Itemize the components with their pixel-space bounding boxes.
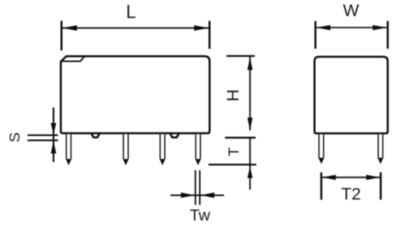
S extension line top [28,134,59,136]
W right arrow [373,25,387,30]
svg-text:T2: T2 [341,185,361,204]
T2 left arrow [322,175,336,180]
T2 dimension right tick [380,172,382,199]
L dimension right arrow [194,25,209,31]
standoff bump 2 [170,134,179,138]
H dimension line [249,57,251,131]
T dimension line [249,138,251,190]
pin 2 [123,134,128,164]
pin 3 [160,134,165,164]
svg-text:Tw: Tw [190,208,211,225]
case corner step detail [62,57,85,62]
svg-text:H: H [223,89,242,101]
svg-text:L: L [126,2,136,22]
S dimension line [53,108,55,163]
L dimension line [63,27,209,29]
Tw extension line left [194,170,196,205]
relay case end view body [315,57,388,134]
T2 right arrow [366,175,380,180]
pin tip plane tick [209,164,257,166]
L dimension left tick [61,21,63,51]
H dimension top tick [227,55,255,57]
L dimension right tick [209,21,211,49]
pin 1 [66,134,71,164]
W dimension left tick [314,21,316,49]
S upper arrow [51,123,56,135]
Tw left arrow [181,193,195,198]
S extension line bottom [28,139,59,141]
S lower arrow [51,141,56,154]
svg-text:S: S [6,132,23,142]
H bottom arrow [247,118,252,131]
W left arrow [316,25,330,30]
seating plane tick [225,137,256,139]
T2 dimension line [322,176,379,178]
W dimension line [316,27,386,29]
relay case side view body [61,56,210,133]
svg-text:T: T [225,147,242,156]
L dimension left arrow [63,25,78,31]
pin 4 [196,134,201,164]
Tw dimension line [170,194,224,196]
Tw right arrow [200,193,214,198]
T bottom arrow [247,167,252,178]
T2 dimension left tick [320,172,322,199]
H top arrow [247,57,252,70]
W dimension right tick [387,21,389,49]
standoff bump 1 [92,134,100,138]
Tw extension line right [199,170,201,205]
end view pin 1 [319,134,324,162]
end view pin 2 [378,134,383,162]
svg-text:W: W [343,1,359,20]
